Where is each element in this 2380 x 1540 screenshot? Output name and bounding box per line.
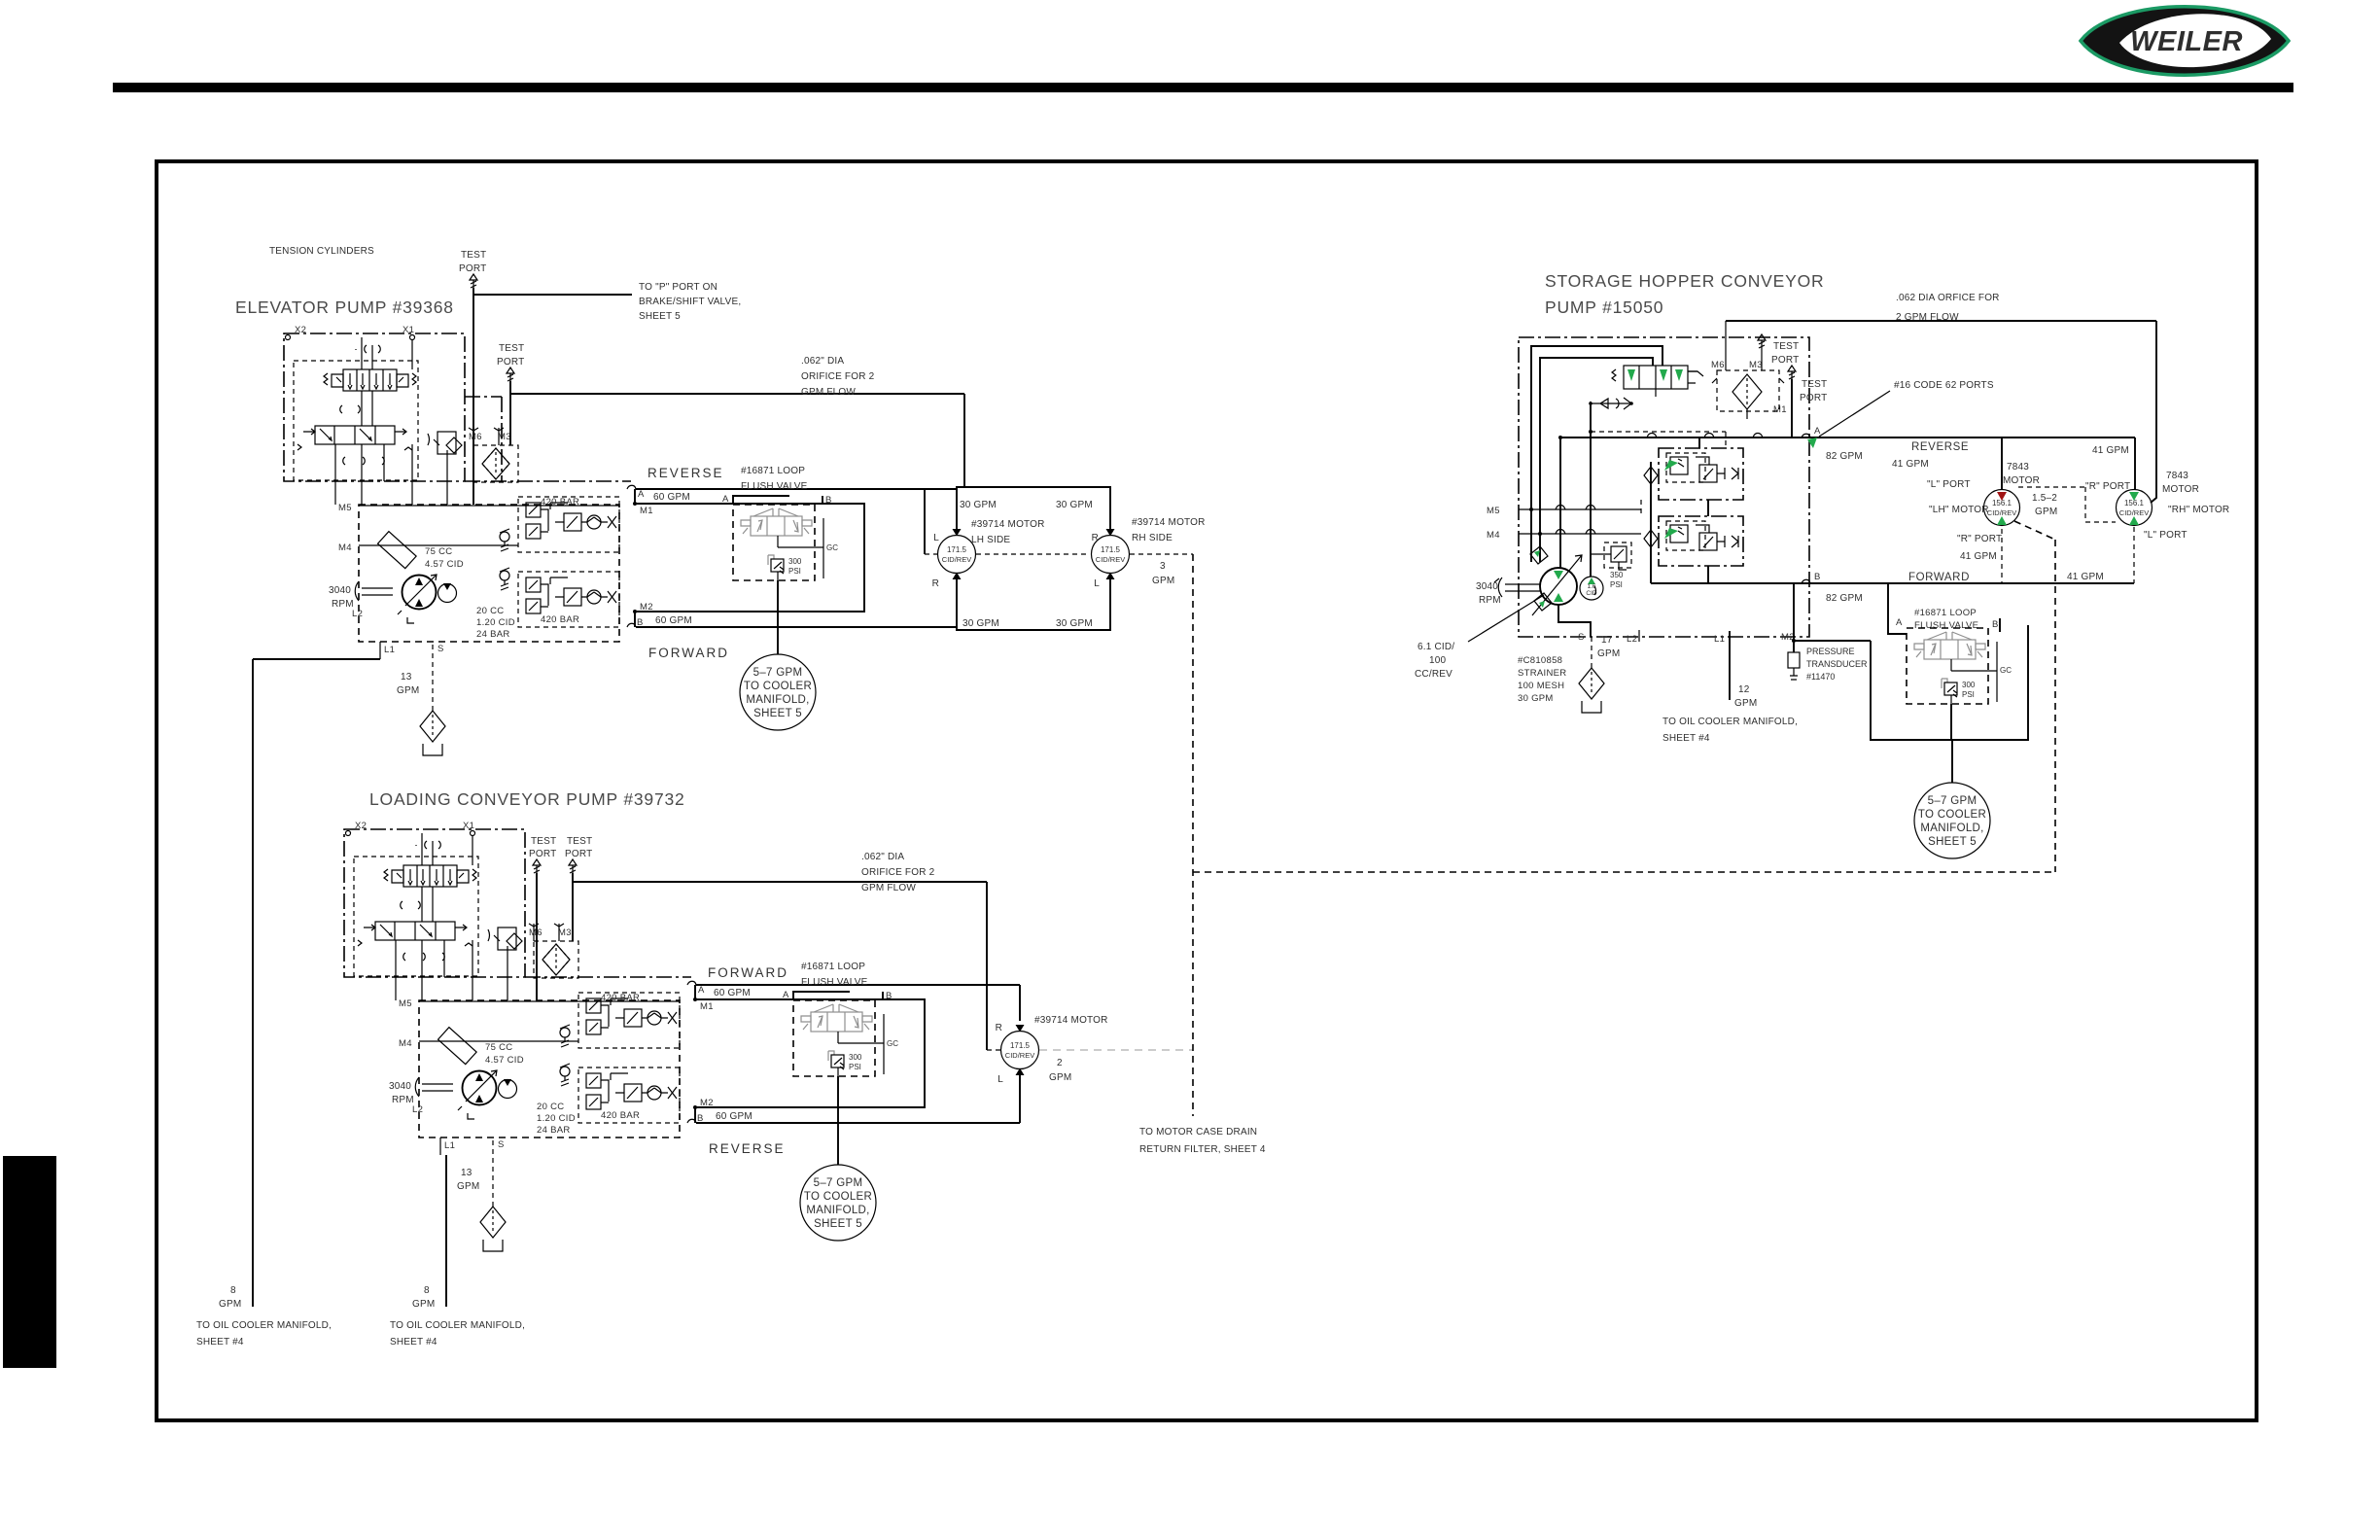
svg-text:FLUSH VALVE: FLUSH VALVE xyxy=(1914,620,1978,631)
motor 7843 LH 156.1 CID/REV xyxy=(1984,490,2020,526)
svg-text:#16871 LOOP: #16871 LOOP xyxy=(801,962,865,972)
svg-text:GPM: GPM xyxy=(1049,1072,1071,1083)
WEILER logo xyxy=(2081,7,2289,76)
svg-text:SHEET 5: SHEET 5 xyxy=(639,311,681,322)
svg-text:"R" PORT: "R" PORT xyxy=(1957,534,2002,544)
nested loop rails xyxy=(1531,346,1662,562)
svg-text:12: 12 xyxy=(1738,684,1750,695)
svg-text:LH SIDE: LH SIDE xyxy=(971,535,1010,545)
dash-dot extension xyxy=(465,397,631,481)
svg-text:2 GPM FLOW: 2 GPM FLOW xyxy=(1896,312,1959,323)
svg-text:FORWARD: FORWARD xyxy=(708,965,788,980)
svg-text:GPM: GPM xyxy=(2035,507,2057,517)
svg-text:ORIFICE FOR 2: ORIFICE FOR 2 xyxy=(861,867,935,878)
svg-text:FORWARD: FORWARD xyxy=(1908,572,1970,583)
svg-text:.062" DIA: .062" DIA xyxy=(861,852,904,862)
svg-text:.062 DIA ORFICE FOR: .062 DIA ORFICE FOR xyxy=(1896,293,2000,303)
svg-text:L2: L2 xyxy=(1627,634,1637,645)
svg-text:GPM: GPM xyxy=(1734,698,1757,709)
svg-text:2: 2 xyxy=(1057,1058,1063,1068)
svg-text:TEST: TEST xyxy=(1773,341,1799,352)
svg-text:PSI: PSI xyxy=(1610,580,1623,589)
FORWARD line xyxy=(1651,582,2134,584)
svg-text:CC/REV: CC/REV xyxy=(1415,669,1452,680)
svg-text:B: B xyxy=(1992,619,1999,630)
svg-text:RH SIDE: RH SIDE xyxy=(1132,533,1172,543)
svg-text:R: R xyxy=(1092,533,1099,543)
svg-text:TEST: TEST xyxy=(531,836,556,847)
svg-text:PORT: PORT xyxy=(565,849,592,859)
svg-text:PORT: PORT xyxy=(497,357,524,367)
svg-text:30 GPM: 30 GPM xyxy=(960,500,997,510)
svg-text:M5: M5 xyxy=(1487,506,1500,516)
svg-text:7843: 7843 xyxy=(2007,462,2029,472)
svg-text:STORAGE HOPPER CONVEYOR: STORAGE HOPPER CONVEYOR xyxy=(1545,271,1824,291)
svg-text:"R" PORT: "R" PORT xyxy=(2085,481,2130,492)
5-7 GPM cooler circle (storage) xyxy=(1914,783,1990,858)
8 GPM drain label (loading) xyxy=(390,1285,525,1347)
svg-text:100: 100 xyxy=(1429,655,1447,666)
flush valve #16871 (elevator) xyxy=(733,505,823,580)
pressure transducer xyxy=(1794,583,1871,652)
svg-text:3: 3 xyxy=(1160,561,1166,572)
svg-text:FLUSH VALVE: FLUSH VALVE xyxy=(801,977,868,988)
svg-text:M1: M1 xyxy=(1773,404,1787,415)
svg-text:30 GPM: 30 GPM xyxy=(962,618,999,629)
5-7 GPM cooler circle (loading) xyxy=(800,1165,876,1241)
svg-text:REVERSE: REVERSE xyxy=(709,1141,786,1156)
pump block (loading conveyor pump #39732) xyxy=(344,821,925,1251)
case drain dashed net xyxy=(1192,554,1194,1116)
svg-text:ORIFICE FOR 2: ORIFICE FOR 2 xyxy=(801,371,875,382)
svg-text:B: B xyxy=(1814,572,1821,582)
flush valve #16871 (storage) xyxy=(1907,628,1997,704)
svg-text:TENSION CYLINDERS: TENSION CYLINDERS xyxy=(269,246,374,257)
svg-text:GPM FLOW: GPM FLOW xyxy=(861,883,916,893)
svg-text:41 GPM: 41 GPM xyxy=(1960,551,1997,562)
svg-text:M4: M4 xyxy=(1487,530,1500,541)
svg-text:GPM: GPM xyxy=(1152,576,1174,586)
.062 orifice line xyxy=(510,394,964,487)
svg-text:#39714 MOTOR: #39714 MOTOR xyxy=(971,519,1045,530)
svg-text:PUMP #15050: PUMP #15050 xyxy=(1545,297,1663,317)
right drain to oil cooler xyxy=(445,1155,447,1307)
svg-text:#39714 MOTOR: #39714 MOTOR xyxy=(1034,1015,1108,1026)
svg-text:REVERSE: REVERSE xyxy=(647,466,724,480)
svg-text:TRANSDUCER: TRANSDUCER xyxy=(1806,659,1868,669)
pump block (elevator pump #39368) xyxy=(284,325,864,755)
pump xyxy=(1530,546,1603,615)
svg-text:B: B xyxy=(886,991,892,1001)
svg-text:TO OIL COOLER MANIFOLD,: TO OIL COOLER MANIFOLD, xyxy=(1662,717,1798,727)
motor #39714 171.5 CID/REV (loading) xyxy=(1001,1025,1039,1075)
main border xyxy=(157,161,2257,1420)
svg-text:3040: 3040 xyxy=(1476,581,1498,592)
svg-text:#16871 LOOP: #16871 LOOP xyxy=(741,466,805,476)
svg-text:STRAINER: STRAINER xyxy=(1518,668,1566,679)
FORWARD / REVERSE lines xyxy=(696,985,1020,1123)
svg-text:82 GPM: 82 GPM xyxy=(1826,593,1863,604)
svg-text:WEILER: WEILER xyxy=(2130,26,2243,57)
350 PSI relief xyxy=(1604,542,1631,568)
svg-text:350: 350 xyxy=(1610,571,1624,579)
5-7 GPM cooler circle (elevator) xyxy=(740,654,816,730)
check diamonds on center rail xyxy=(1644,467,1658,547)
svg-text:41 GPM: 41 GPM xyxy=(1892,459,1929,470)
left edge black rectangle xyxy=(3,1156,56,1368)
svg-text:BRAKE/SHIFT VALVE,: BRAKE/SHIFT VALVE, xyxy=(639,297,741,307)
svg-text:7843: 7843 xyxy=(2166,471,2188,481)
svg-text:82 GPM: 82 GPM xyxy=(1826,451,1863,462)
svg-text:"LH" MOTOR: "LH" MOTOR xyxy=(1929,505,1989,515)
svg-text:.062" DIA: .062" DIA xyxy=(801,356,844,367)
svg-text:A: A xyxy=(783,990,789,1000)
svg-text:MOTOR: MOTOR xyxy=(2162,484,2199,495)
inter-motor dashed + case drain xyxy=(2018,487,2116,522)
svg-text:TEST: TEST xyxy=(567,836,592,847)
svg-text:#11470: #11470 xyxy=(1806,672,1835,682)
svg-text:FORWARD: FORWARD xyxy=(648,646,729,660)
svg-text:GPM FLOW: GPM FLOW xyxy=(801,387,856,398)
svg-text:SHEET #4: SHEET #4 xyxy=(1662,733,1710,744)
svg-text:"RH" MOTOR: "RH" MOTOR xyxy=(2168,505,2229,515)
svg-text:#39714 MOTOR: #39714 MOTOR xyxy=(1132,517,1206,528)
svg-text:RETURN FILTER, SHEET 4: RETURN FILTER, SHEET 4 xyxy=(1139,1144,1266,1155)
svg-text:TEST: TEST xyxy=(499,343,524,354)
svg-text:ELEVATOR PUMP #39368: ELEVATOR PUMP #39368 xyxy=(235,297,454,317)
svg-text:A: A xyxy=(1814,426,1821,437)
svg-text:TEST: TEST xyxy=(461,250,486,261)
8 GPM drain label (elevator) xyxy=(196,1285,332,1347)
svg-text:GC: GC xyxy=(887,1039,898,1048)
svg-text:M3: M3 xyxy=(1749,360,1763,370)
svg-text:6.1 CID/: 6.1 CID/ xyxy=(1417,642,1454,652)
svg-text:#16 CODE 62 PORTS: #16 CODE 62 PORTS xyxy=(1894,380,1994,391)
svg-text:L: L xyxy=(1094,578,1100,589)
motor link dashes xyxy=(924,489,926,554)
svg-text:30 GPM: 30 GPM xyxy=(1518,693,1554,704)
dashed pilots xyxy=(1591,432,1726,516)
svg-text:41 GPM: 41 GPM xyxy=(2092,445,2129,456)
svg-text:TEST: TEST xyxy=(1802,379,1827,390)
svg-text:A: A xyxy=(1896,617,1903,628)
flush valve #16871 (loading) xyxy=(793,1000,884,1076)
.062 orifice line xyxy=(573,882,987,1050)
svg-text:41 GPM: 41 GPM xyxy=(2067,572,2104,582)
svg-text:L: L xyxy=(933,533,939,543)
svg-text:PORT: PORT xyxy=(1800,393,1827,403)
svg-text:1.5–2: 1.5–2 xyxy=(2032,493,2057,504)
top black bar xyxy=(113,83,2293,92)
svg-text:RPM: RPM xyxy=(1479,595,1501,606)
cluster risers xyxy=(1699,437,1708,583)
strainer #C810858 xyxy=(1579,668,1604,713)
REVERSE line xyxy=(1560,437,2135,489)
REVERSE / FORWARD lines xyxy=(636,489,957,627)
svg-text:GC: GC xyxy=(826,543,838,552)
svg-text:PORT: PORT xyxy=(1771,355,1799,366)
orifice line xyxy=(1726,321,2156,503)
center verticals xyxy=(1560,402,1591,577)
svg-text:REVERSE: REVERSE xyxy=(1911,441,1969,453)
svg-text:TO "P" PORT ON: TO "P" PORT ON xyxy=(639,282,717,293)
pump bottom to S xyxy=(1558,605,1591,637)
svg-text:L1: L1 xyxy=(1714,634,1725,645)
svg-text:FLUSH VALVE: FLUSH VALVE xyxy=(741,481,808,492)
single motor xyxy=(1019,985,1021,1123)
svg-text:LOADING CONVEYOR PUMP #3973: LOADING CONVEYOR PUMP #39732 xyxy=(369,789,685,809)
svg-text:"L" PORT: "L" PORT xyxy=(1927,479,1971,490)
svg-text:PRESSURE: PRESSURE xyxy=(1806,647,1855,656)
dash-dot extension xyxy=(525,976,691,978)
valve cluster dash-dot boxes xyxy=(1659,448,1743,500)
left drain to oil cooler xyxy=(253,659,380,1307)
svg-text:17: 17 xyxy=(1601,635,1613,646)
pump dash-dot box xyxy=(1519,337,1809,637)
check assembly below valve xyxy=(1591,398,1631,409)
svg-text:"L" PORT: "L" PORT xyxy=(2144,530,2187,541)
svg-text:100 MESH: 100 MESH xyxy=(1518,681,1564,691)
svg-text:30 GPM: 30 GPM xyxy=(1056,500,1093,510)
svg-text:R: R xyxy=(932,578,939,589)
12 GPM drain xyxy=(1729,631,1731,700)
svg-text:B: B xyxy=(825,495,832,506)
svg-text:M6: M6 xyxy=(1711,360,1725,370)
svg-text:L: L xyxy=(997,1074,1003,1085)
svg-text:30 GPM: 30 GPM xyxy=(1056,618,1093,629)
svg-text:A: A xyxy=(722,494,729,505)
svg-text:S: S xyxy=(1578,632,1585,643)
to P port line xyxy=(473,294,632,296)
svg-text:TO MOTOR CASE DRAIN: TO MOTOR CASE DRAIN xyxy=(1139,1127,1257,1137)
svg-text:R: R xyxy=(996,1023,1002,1033)
motor loop rectangle xyxy=(957,487,1110,630)
motor #39714 RH SIDE 171.5 CID/REV xyxy=(1092,529,1130,579)
svg-text:#16871 LOOP: #16871 LOOP xyxy=(1914,608,1977,618)
svg-text:#C810858: #C810858 xyxy=(1518,655,1562,666)
top directional valve xyxy=(1612,366,1703,389)
svg-text:GPM: GPM xyxy=(1597,648,1620,659)
svg-text:PORT: PORT xyxy=(459,263,486,274)
svg-text:GC: GC xyxy=(2000,666,2012,675)
svg-text:PORT: PORT xyxy=(529,849,556,859)
motor 7843 RH 156.1 CID/REV xyxy=(2117,490,2152,526)
svg-text:MOTOR: MOTOR xyxy=(2003,475,2040,486)
motor #39714 LH SIDE 171.5 CID/REV xyxy=(938,529,976,579)
